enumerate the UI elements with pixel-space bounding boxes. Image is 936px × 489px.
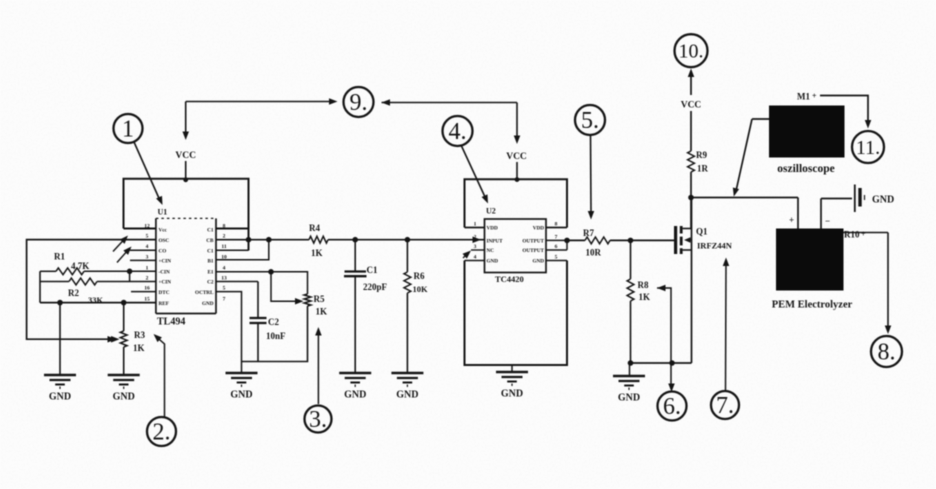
svg-text:B1: B1 (207, 259, 213, 265)
svg-text:+: + (789, 215, 794, 225)
power GND flag (battery) (821, 185, 894, 213)
resistor R2 33K (40, 271, 156, 305)
svg-text:DTC: DTC (159, 290, 170, 296)
svg-text:4: 4 (223, 265, 226, 271)
label R10 (844, 230, 866, 240)
svg-text:4.7K: 4.7K (71, 261, 89, 271)
svg-text:IRFZ44N: IRFZ44N (697, 241, 733, 251)
svg-text:+: + (812, 92, 817, 101)
wire bus R7-Q1 gate (610, 238, 675, 244)
power VCC (drain) (681, 69, 702, 152)
svg-text:8.: 8. (878, 340, 896, 366)
svg-text:VDD: VDD (487, 226, 498, 232)
svg-text:4: 4 (474, 255, 477, 261)
wire node9-left (186, 98, 338, 105)
svg-text:1K: 1K (639, 292, 651, 302)
node label circle 1 (114, 114, 143, 143)
svg-text:1K: 1K (316, 307, 328, 317)
wire U2 outputs join (546, 238, 570, 250)
svg-text:15: 15 (144, 297, 150, 303)
svg-text:R8: R8 (638, 280, 649, 290)
svg-text:2: 2 (146, 276, 149, 282)
svg-text:7: 7 (555, 234, 558, 240)
svg-text:13: 13 (221, 276, 227, 282)
potentiometer R5 1K (271, 272, 327, 317)
svg-text:GND: GND (49, 392, 71, 403)
svg-text:33K: 33K (88, 295, 104, 305)
resistor R7 10R (567, 237, 610, 258)
svg-text:R7: R7 (583, 228, 594, 238)
svg-text:C1: C1 (207, 228, 214, 234)
ground GND4 (339, 373, 371, 401)
arrow from circle 3 (315, 327, 322, 404)
transistor Q1 IRFZ44N (674, 198, 733, 364)
svg-text:16: 16 (144, 286, 150, 292)
U1 pin L7 stub (131, 291, 156, 293)
node label circle 5 (575, 105, 605, 135)
U2 pin labels and numbers (474, 222, 558, 265)
arrow from circle 1 to U1 (134, 142, 165, 206)
label M1 (797, 92, 817, 102)
svg-text:GND: GND (618, 393, 640, 404)
potentiometer R3 1K (111, 303, 145, 375)
svg-text:C2: C2 (268, 317, 279, 327)
svg-text:R10: R10 (844, 230, 860, 240)
svg-text:R3: R3 (134, 330, 145, 340)
svg-text:R9: R9 (696, 150, 707, 160)
svg-text:4: 4 (146, 244, 149, 250)
svg-text:GND: GND (230, 390, 252, 401)
wire scope probe tap (731, 119, 769, 197)
arrow from circle 5 to R7 (583, 135, 594, 238)
svg-text:7.: 7. (716, 393, 734, 419)
svg-text:CB: CB (206, 238, 214, 244)
svg-text:OSC: OSC (159, 238, 170, 244)
capacitor C2 10nF (216, 282, 286, 362)
svg-text:TC4420: TC4420 (495, 274, 524, 284)
arrow from circle 7 (723, 258, 730, 391)
wire drain node (688, 195, 798, 201)
svg-text:R2: R2 (68, 288, 79, 298)
svg-text:5: 5 (555, 255, 558, 261)
U1 pin L3 stub (113, 233, 156, 251)
wire U1 top box (124, 179, 252, 251)
node label circle 11 (852, 131, 884, 163)
svg-text:5.: 5. (581, 108, 599, 134)
node label circle 2 (147, 417, 176, 446)
svg-text:VCC: VCC (681, 101, 702, 111)
svg-text:3: 3 (146, 254, 149, 260)
svg-text:NC: NC (487, 248, 495, 254)
wire R5 bottom to rail (242, 306, 308, 362)
wire bus U1-R4 (216, 239, 309, 241)
svg-text:5: 5 (146, 234, 149, 240)
wire U1 pin R7 to GND (216, 292, 242, 373)
resistor R9 1R (688, 150, 709, 229)
svg-text:VCC: VCC (506, 152, 527, 162)
oscilloscope (769, 106, 845, 176)
resistor R6 10K (404, 240, 428, 373)
svg-text:+CIN: +CIN (159, 259, 172, 265)
svg-text:C2: C2 (207, 280, 214, 286)
svg-text:6: 6 (555, 244, 558, 250)
svg-text:2: 2 (474, 234, 477, 240)
svg-text:GND: GND (872, 195, 894, 206)
svg-text:OCTRL: OCTRL (195, 290, 214, 296)
svg-text:REF: REF (159, 301, 169, 307)
wire left rail (27, 240, 156, 343)
svg-text:U2: U2 (486, 207, 496, 216)
svg-text:10R: 10R (586, 248, 602, 258)
wire GND drop left (59, 303, 61, 375)
U1 pin L4 stub (117, 244, 156, 262)
svg-text:2: 2 (223, 234, 226, 240)
ground GND3 (226, 373, 258, 401)
svg-text:GND: GND (396, 390, 418, 401)
wire node9-right (382, 99, 518, 138)
power VCC (U2) (506, 136, 527, 183)
svg-text:5: 5 (223, 286, 226, 292)
wire R10 to circle 8 (844, 233, 892, 335)
svg-text:1: 1 (146, 265, 149, 271)
svg-text:8: 8 (555, 222, 558, 228)
svg-text:C1: C1 (367, 265, 378, 275)
arrow from circle 2 (151, 332, 164, 417)
svg-text:R5: R5 (314, 294, 325, 304)
node label circle 8 (871, 336, 902, 367)
U1 pin numbers (144, 223, 227, 302)
resistor R1 4.7K (40, 252, 156, 275)
svg-text:2.: 2. (153, 420, 171, 446)
power VCC (U1) (175, 102, 196, 183)
resistor R4 1K (309, 223, 328, 258)
wire U1 pin R5 to R5 pot (216, 269, 308, 294)
wire U2 bottom box (465, 261, 568, 366)
svg-text:+CIN: +CIN (159, 280, 172, 286)
svg-text:9.: 9. (350, 90, 368, 116)
resistor R8 1K (627, 240, 650, 363)
wire pin L8 row (40, 300, 156, 306)
svg-text:1: 1 (122, 117, 134, 143)
svg-text:4.: 4. (449, 119, 467, 145)
svg-text:E1: E1 (207, 270, 213, 276)
svg-text:VDD: VDD (533, 226, 544, 232)
svg-text:-CIN: -CIN (159, 270, 170, 276)
PEM electrolyzer (772, 229, 853, 311)
node label circle 4 (443, 116, 473, 146)
op-amp U1 TL494 body (156, 208, 216, 328)
svg-text:10nF: 10nF (266, 331, 286, 341)
capacitor C1 220pF (344, 240, 388, 373)
svg-text:oszilloscope: oszilloscope (777, 163, 835, 175)
svg-text:12: 12 (144, 223, 150, 229)
svg-text:GND: GND (501, 389, 523, 400)
svg-text:1R: 1R (697, 164, 709, 174)
ground GND1 (44, 375, 76, 403)
svg-text:TL494: TL494 (157, 317, 185, 328)
svg-text:1: 1 (474, 222, 477, 228)
wire U1 pin R3 (216, 249, 249, 251)
wire U1 pin R4 jog (216, 237, 272, 260)
svg-text:GND: GND (202, 301, 214, 307)
svg-text:M1: M1 (797, 92, 810, 102)
svg-text:6.: 6. (663, 394, 681, 420)
svg-text:11.: 11. (856, 137, 880, 159)
node label circle 6 (658, 392, 687, 421)
svg-text:220pF: 220pF (363, 282, 388, 292)
wire PEM minus (821, 199, 830, 229)
svg-text:1K: 1K (133, 343, 145, 353)
svg-text:8: 8 (223, 223, 226, 229)
wire source rail (628, 360, 692, 376)
svg-text:R4: R4 (309, 223, 320, 233)
ground GND2 (108, 375, 140, 403)
svg-text:C1: C1 (207, 248, 214, 254)
svg-text:Vcc: Vcc (159, 228, 168, 234)
svg-text:INPUT: INPUT (487, 239, 504, 245)
wire bus R4-C1-R6-U2 (328, 236, 485, 243)
node label circle 9 (344, 87, 374, 117)
svg-text:7: 7 (223, 297, 226, 303)
svg-text:11: 11 (221, 244, 226, 250)
driver U2 TC4420 body (485, 207, 547, 285)
svg-text:U1: U1 (158, 208, 168, 217)
svg-text:+: + (861, 230, 866, 239)
U1 pin labels (159, 228, 215, 307)
svg-text:10K: 10K (413, 284, 429, 294)
wire R1-R2 left join (39, 271, 41, 302)
svg-text:3.: 3. (309, 407, 327, 433)
svg-text:OUTPUT: OUTPUT (522, 248, 544, 254)
U2 NC stub (463, 248, 485, 259)
arrow from circle 4 to U2 (462, 146, 491, 205)
wire PEM plus (789, 198, 798, 229)
svg-text:PEM Electrolyzer: PEM Electrolyzer (772, 300, 853, 311)
arrow from circle 6 to R8 (657, 285, 675, 392)
ground GND7 (613, 376, 645, 404)
svg-text:Q1: Q1 (696, 227, 708, 237)
svg-text:GND: GND (344, 390, 366, 401)
svg-text:10.: 10. (679, 41, 704, 63)
wire M1 to circle 11 (820, 96, 871, 129)
wire U2 top box (465, 179, 568, 227)
svg-text:OUTPUT: OUTPUT (522, 239, 544, 245)
svg-text:3: 3 (474, 244, 477, 250)
node label circle 10 (675, 34, 708, 67)
svg-text:GND: GND (487, 259, 499, 265)
ground GND6 (496, 365, 528, 400)
svg-text:GND: GND (113, 392, 135, 403)
wire U2 GND pins (465, 260, 568, 262)
svg-text:CO: CO (159, 248, 167, 254)
svg-text:VCC: VCC (175, 151, 196, 161)
node label circle 7 (711, 391, 739, 419)
ground GND5 (391, 373, 423, 401)
node label circle 3 (305, 406, 332, 434)
svg-text:R6: R6 (414, 271, 425, 281)
svg-text:GND: GND (532, 259, 544, 265)
svg-text:1K: 1K (311, 248, 323, 258)
svg-text:−: − (825, 216, 830, 226)
svg-text:R1: R1 (54, 252, 65, 262)
